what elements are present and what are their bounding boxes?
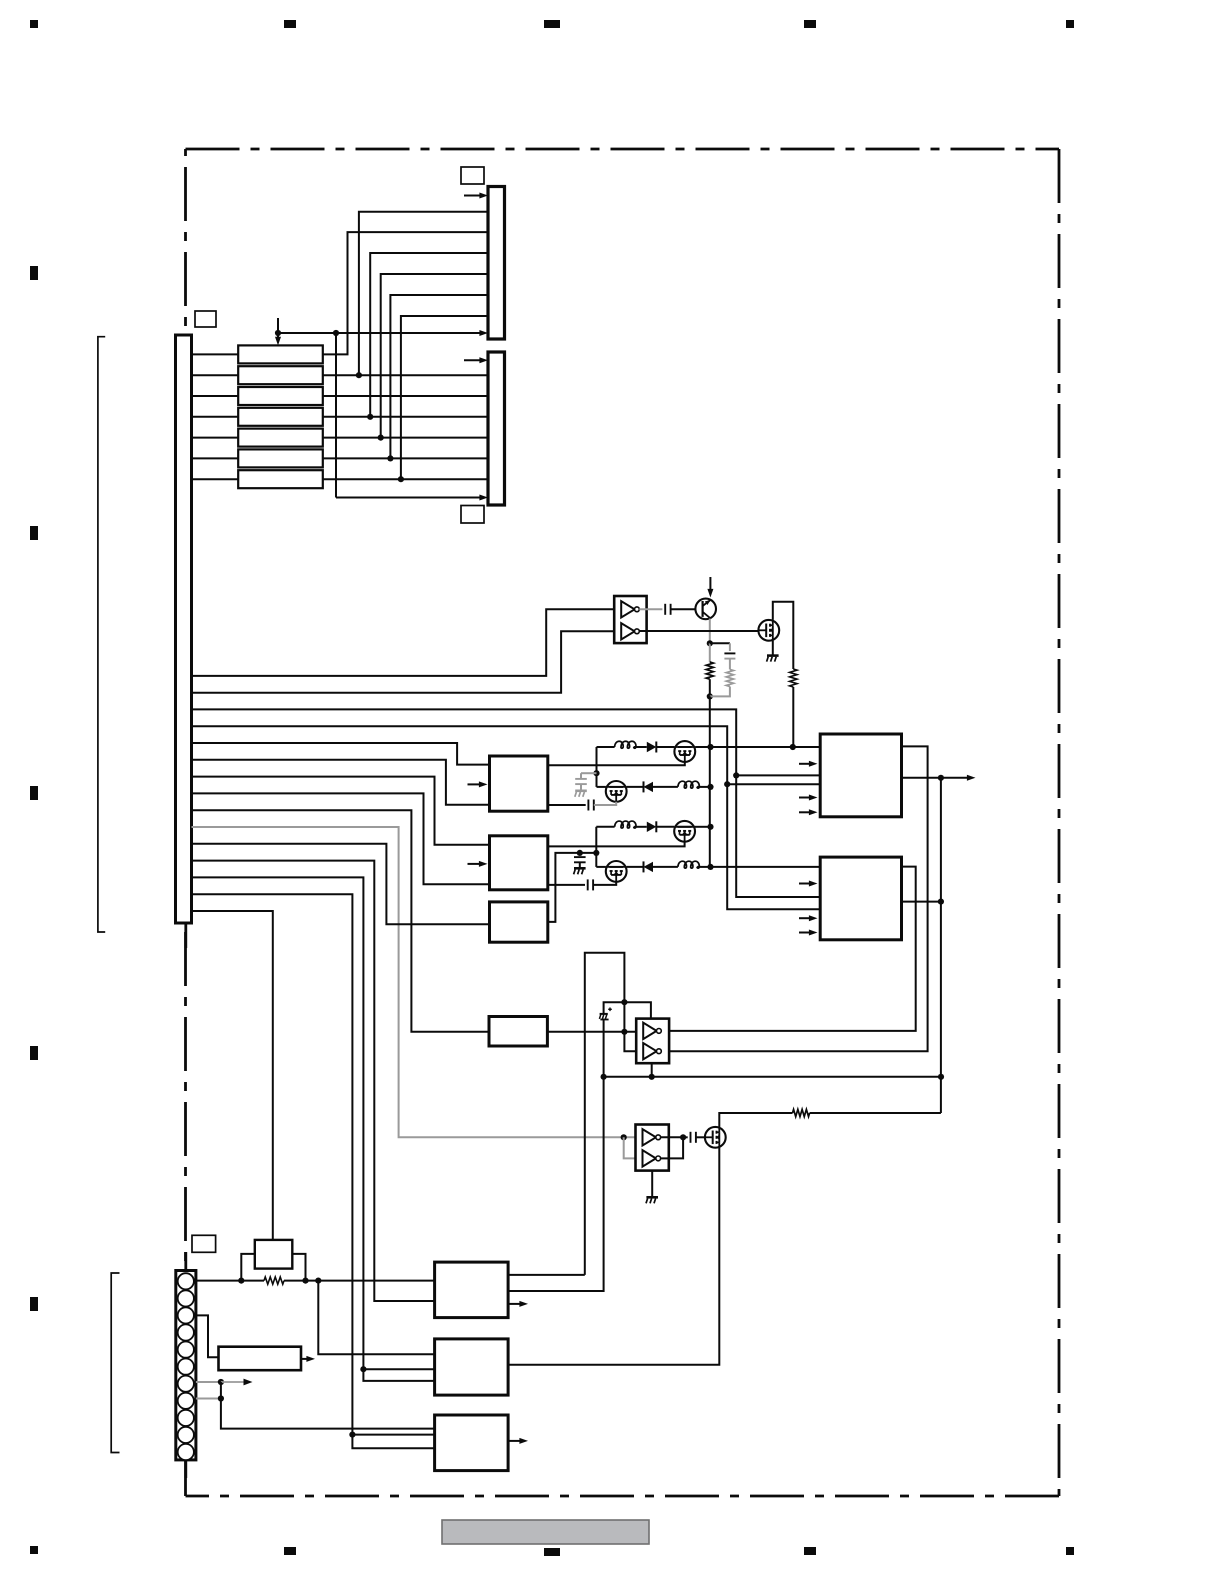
wire common rail y1077 xyxy=(604,1076,941,1078)
wire L1 to D1 xyxy=(634,746,647,748)
wire Q2 source to ground xyxy=(772,641,774,655)
registration mark top-right xyxy=(1066,20,1074,28)
diode D4 xyxy=(644,861,654,872)
junction U10 input xyxy=(621,1134,627,1140)
junction RA4 riser xyxy=(367,414,373,420)
inductor L4 xyxy=(678,861,699,868)
junction node C xyxy=(707,693,713,699)
junction riser C3 tap xyxy=(593,770,599,776)
arrow U13 output xyxy=(508,1438,528,1444)
resistor array RA6 xyxy=(238,449,323,467)
wire U1 p2 to inverter U8 in2 xyxy=(192,631,615,692)
board outline (dash-dot frame) xyxy=(186,149,1060,1496)
wire U10 out tie xyxy=(661,1137,684,1158)
junction p13 branch xyxy=(360,1366,366,1372)
registration mark left 5 xyxy=(30,1297,38,1311)
wire U1 pin to RA5 xyxy=(192,437,239,439)
wire RA7 to CN2 xyxy=(323,478,488,480)
supply stub into RA1 (down arrow) xyxy=(275,318,281,345)
wire U10 in2 branch (grey) xyxy=(624,1137,636,1158)
registration mark left 2 xyxy=(30,526,38,540)
wire Q5 to bus xyxy=(695,826,711,828)
arrow pin7 (grey line, black head) xyxy=(221,1379,253,1386)
wire U9 in2 branch xyxy=(624,1032,636,1051)
wire R1 to node C xyxy=(709,679,711,696)
wire RA5 to CN2 xyxy=(323,437,488,439)
registration mark bottom 4 xyxy=(804,1547,816,1555)
junction pin7 xyxy=(218,1379,224,1385)
junction row3 bus xyxy=(707,824,713,830)
wire riser to Q6 gate xyxy=(596,866,606,868)
wire RA1 to CN1 (riser) xyxy=(323,232,488,354)
junction Vrail/link xyxy=(621,999,627,1005)
junction U9 bottom xyxy=(649,1074,655,1080)
wire driver U2 outB to C4 xyxy=(548,804,586,806)
wire row1 to R3 node xyxy=(711,746,793,748)
wire p3 to U5 xyxy=(736,774,820,776)
resistor R1 xyxy=(706,662,713,679)
registration mark bottom center xyxy=(544,1548,560,1556)
wire U1 pin to RA7 xyxy=(192,478,239,480)
wire p13 branch to U12 xyxy=(363,1368,434,1370)
wire R2 to node C (grey) xyxy=(710,687,730,697)
wire U1 p6 to driver U2 xyxy=(192,760,490,805)
trim network box U14 xyxy=(219,1347,302,1371)
supply arrow into Q1 collector xyxy=(707,577,713,598)
junction RA7 riser xyxy=(398,476,404,482)
wire battery to node D xyxy=(603,1020,605,1077)
inverter pair U8 xyxy=(614,596,646,643)
junction node B xyxy=(333,330,339,336)
inverter pair U9 xyxy=(636,1019,669,1064)
wire CN3 pin7 (grey) xyxy=(196,1381,221,1383)
inductor L2 xyxy=(678,781,699,788)
mosfet Q4 xyxy=(606,781,627,802)
junction C5 tap xyxy=(577,850,583,856)
resistor R5 xyxy=(264,1277,284,1284)
arrow into U6 c xyxy=(799,930,818,936)
resistor R4 xyxy=(793,1109,810,1116)
arrow into U5 a xyxy=(799,761,818,767)
wire pin7/8 to U13 xyxy=(221,1399,435,1429)
wire U1 p15 to network box U15 xyxy=(192,911,273,1240)
wire U1 pin to RA3 xyxy=(192,395,239,397)
arrow into CN2 pin1 xyxy=(464,357,488,363)
wire U1 pin to RA6 xyxy=(192,457,239,459)
wire branch to U12 xyxy=(318,1281,434,1355)
wire p4 to U5 xyxy=(727,783,820,785)
mosfet Q2 xyxy=(758,620,779,641)
junction U9 input xyxy=(621,1029,627,1035)
reference label box A xyxy=(195,311,216,327)
ground GND4 xyxy=(646,1197,658,1203)
wire RA4 to CN2 xyxy=(323,416,488,418)
wire RA4 riser to CN1 xyxy=(370,253,488,417)
arrow into U6 b xyxy=(799,915,818,921)
capacitor C1 xyxy=(665,604,670,615)
wire Q4 to D2 xyxy=(627,786,644,788)
capacitor C3 (grey) xyxy=(575,773,587,784)
capacitor C6 xyxy=(588,879,593,890)
registration mark left 1 xyxy=(30,266,38,280)
wire pin1 net to U11 xyxy=(306,1280,435,1282)
driver U4 xyxy=(490,902,548,942)
wire node B to CN2 (arrow) xyxy=(336,333,488,501)
wire p14 branch to U13 xyxy=(352,1434,434,1436)
wire CN3 pin1 net xyxy=(196,1280,241,1282)
registration mark bottom-left xyxy=(30,1546,38,1554)
registration mark left 3 xyxy=(30,786,38,800)
mosfet Q7 xyxy=(705,1127,726,1148)
wire U7 out to U9 xyxy=(547,1031,636,1033)
junction row2 bus xyxy=(707,784,713,790)
wire U10 out1 xyxy=(661,1136,684,1138)
title block (grey label box) xyxy=(442,1520,649,1544)
transistor Q1 xyxy=(695,599,716,620)
wire C5 to GND3 xyxy=(579,862,581,867)
ground GND1 xyxy=(767,656,779,662)
wire feedback bus x941 xyxy=(940,778,942,1113)
ground GND3 xyxy=(574,868,586,874)
filter box U7 xyxy=(489,1017,547,1047)
wire U9 bottom stub xyxy=(651,1063,653,1077)
wire RA3 to CN2 xyxy=(323,395,488,397)
junction p3/driver xyxy=(733,772,739,778)
wire V+ rail xyxy=(604,1002,651,1018)
resistor array RA3 xyxy=(238,387,323,405)
junction pin8 xyxy=(218,1395,224,1401)
diode D3 xyxy=(647,821,657,832)
inductor L3 xyxy=(596,821,636,828)
wire R3 to row1 xyxy=(792,687,794,747)
wire p3 to U6 xyxy=(736,775,820,897)
wire Q1 emitter (grey) xyxy=(709,619,711,644)
wire RA5 riser to CN1 xyxy=(381,274,488,438)
registration mark bottom 2 xyxy=(284,1547,296,1555)
ground GND2 (grey) xyxy=(575,791,587,797)
wire RA6 riser to CN1 xyxy=(390,295,488,458)
wire RA2 riser to CN1 xyxy=(359,212,488,375)
diode D1 xyxy=(647,742,657,753)
wire driver U3 outB to C6 xyxy=(548,884,585,886)
output box U13 xyxy=(435,1415,509,1471)
wire U11 outA xyxy=(508,1274,585,1276)
output box U12 xyxy=(435,1339,509,1395)
reference label box D xyxy=(192,1235,216,1252)
resistor R2 (grey) xyxy=(726,669,733,686)
connector CN3 xyxy=(176,1271,196,1460)
wire L2 to bus row2 xyxy=(697,786,710,788)
junction row1/R3 xyxy=(790,744,796,750)
component box U15 (parallel network) xyxy=(241,1240,305,1281)
diode D2 xyxy=(644,781,654,792)
wire D2 to L2 xyxy=(653,786,678,788)
wire driver U2 outA xyxy=(548,762,685,765)
wire U1 p10 (grey) to inverter U10 xyxy=(192,827,636,1137)
wire tap to C3 (grey) xyxy=(581,772,597,774)
wire L4 to bus row4 xyxy=(697,866,710,868)
junction R5 left xyxy=(238,1278,244,1284)
arrow output right xyxy=(941,775,976,781)
inverter pair U10 xyxy=(636,1125,669,1171)
arrow into U3 xyxy=(468,861,488,867)
group bracket (connector section) xyxy=(111,1273,119,1453)
wire U1 p11 to driver U4 xyxy=(192,844,490,925)
junction row4 bus xyxy=(707,864,713,870)
wire RA6 to CN2 xyxy=(323,457,488,459)
mosfet Q5 xyxy=(674,821,695,842)
capacitor C2 xyxy=(724,653,735,658)
wire branch to C2 (grey) xyxy=(729,643,731,651)
IC U1 (main microcontroller bar) xyxy=(176,335,192,923)
wire frame stub above CN3 xyxy=(184,1252,187,1271)
label box C (CN2) xyxy=(461,506,484,524)
wire U1 pin to RA1 xyxy=(192,353,239,355)
arrow U14 output xyxy=(301,1356,315,1362)
wire R5 right xyxy=(284,1280,306,1282)
wire C7 to Q7 gate xyxy=(696,1136,705,1138)
wire U1 p4 bus xyxy=(192,726,728,784)
wire out to C7 xyxy=(683,1136,688,1138)
wire frame stub below U1 xyxy=(184,923,187,948)
wire row1 into U5 xyxy=(793,746,820,748)
wire U8 out2 to Q2 gate xyxy=(639,630,758,632)
junction RA6 riser xyxy=(387,455,393,461)
group bracket (IC section) xyxy=(98,337,105,932)
wire U1 p1 to inverter U8 in1 xyxy=(192,609,615,676)
wire Q2 drain to R3 xyxy=(773,602,794,669)
wire Q6 to D4 xyxy=(627,866,644,868)
wire RA7 riser to CN1 xyxy=(401,316,488,479)
wire riser to Q4 gate xyxy=(597,786,606,788)
battery V+ (supply symbol) xyxy=(599,1008,611,1020)
wire C4 to Q4 source (grey) xyxy=(594,802,616,805)
junction Q1 emitter node xyxy=(707,640,713,646)
registration mark top 2 xyxy=(284,20,296,28)
wire U10 ground stub xyxy=(651,1171,653,1197)
wire U1 p3 bus xyxy=(192,709,737,775)
mosfet Q6 xyxy=(606,861,627,882)
junction pin1/U12 branch xyxy=(315,1278,321,1284)
resistor array RA7 xyxy=(238,470,323,488)
resistor array RA5 xyxy=(238,429,323,447)
resistor array RA2 xyxy=(238,366,323,384)
wire U1 pin to RA4 xyxy=(192,416,239,418)
wire row3 riser xyxy=(595,827,597,867)
resistor array RA4 xyxy=(238,408,323,426)
wire L3 to D3 xyxy=(634,826,647,828)
junction U5 outB xyxy=(938,775,944,781)
junction RA2 riser xyxy=(356,372,362,378)
wire Q7 source to U12 xyxy=(508,1148,719,1365)
wire C3 to GND2 (grey) xyxy=(580,784,582,790)
wire U1 p7 to driver U3 xyxy=(192,777,490,845)
junction rail/feedback xyxy=(938,1074,944,1080)
wire frame stub below CN3 xyxy=(184,1460,187,1478)
connector CN2 xyxy=(488,352,505,505)
junction p14 branch xyxy=(349,1432,355,1438)
connector CN1 xyxy=(488,187,505,340)
output box U11 xyxy=(435,1262,509,1318)
arrow into CN1 pin1 xyxy=(464,193,488,199)
wire CN3 pin3 to trim box xyxy=(196,1315,219,1357)
junction node A xyxy=(275,330,281,336)
wire RA2 to CN2 xyxy=(323,374,488,376)
junction RA5 riser xyxy=(378,435,384,441)
wire U5 outB node xyxy=(902,777,941,779)
wire U5 outA to U9 xyxy=(664,746,928,1051)
bus emitter node C down xyxy=(709,696,711,867)
wire U6 outB node xyxy=(902,901,941,903)
wire to R5 xyxy=(241,1280,264,1282)
wire driver U3 outA xyxy=(548,842,685,847)
power module U6 xyxy=(820,857,901,940)
junction U6 outB xyxy=(938,899,944,905)
wire U1 p5 to driver U2 xyxy=(192,743,490,765)
wire U1 p13 to box U12 xyxy=(192,877,435,1381)
junction node D xyxy=(601,1074,607,1080)
driver U2 xyxy=(490,756,548,811)
capacitor C4 xyxy=(588,800,593,811)
wire U1 pin to RA2 xyxy=(192,374,239,376)
wire CN3 pin8 (grey) xyxy=(196,1398,221,1400)
junction riser row3/U4 xyxy=(593,850,599,856)
wire U1 p14 to box U13 xyxy=(192,894,435,1448)
wire node D to box5 xyxy=(507,1077,603,1291)
wire node to R1 (grey) xyxy=(709,643,711,662)
wire RC branch top xyxy=(710,642,730,644)
capacitor C7 xyxy=(691,1132,696,1143)
driver U3 xyxy=(490,836,548,890)
wire D3 to Q5 xyxy=(656,826,674,828)
wire Q7 drain to R4 xyxy=(719,1113,792,1127)
arrow into U6 a xyxy=(799,881,818,887)
wire U4 output riser xyxy=(548,853,597,922)
wire U8 out1 (grey) to C1 xyxy=(639,608,662,610)
arrow into U5 b xyxy=(799,795,818,801)
wire U1 p8 to driver U3 xyxy=(192,793,490,884)
power module U5 xyxy=(820,734,901,817)
wire U6 outA to U9 xyxy=(664,867,916,1031)
junction row1 bus xyxy=(707,744,713,750)
wire D1 to Q3 xyxy=(656,746,674,748)
capacitor C5 xyxy=(574,853,586,862)
mosfet Q3 xyxy=(674,741,695,762)
registration mark left 4 xyxy=(30,1046,38,1060)
wire C1 to Q1 base xyxy=(671,608,696,610)
connector CN3 pins xyxy=(178,1273,194,1460)
wire row4 into U6 xyxy=(711,866,821,868)
wire row1 riser xyxy=(596,747,598,787)
junction U10 out xyxy=(680,1134,686,1140)
wire R4 to feedback bus xyxy=(810,1112,941,1114)
wire p4 to U6 xyxy=(727,784,820,909)
resistor R3 xyxy=(790,669,797,687)
arrow into U5 c xyxy=(799,809,818,815)
wire box5 loop link xyxy=(585,953,625,1275)
resistor array RA1 xyxy=(238,345,323,363)
label box B (CN1) xyxy=(461,167,484,184)
arrow into U2 xyxy=(468,781,488,787)
wire D4 to L4 xyxy=(653,866,678,868)
wire C2 to R2 (grey) xyxy=(729,659,731,670)
registration mark bottom-right xyxy=(1066,1547,1074,1555)
wire node A to CN1 (arrow) xyxy=(278,330,488,336)
inductor L1 xyxy=(597,741,638,748)
wire C6 to Q6 source xyxy=(593,882,616,885)
registration mark top 4 xyxy=(804,20,816,28)
registration mark top-left xyxy=(30,20,38,28)
wire pins7-8 tie xyxy=(220,1382,222,1399)
wire U1 p9 to filter U7 xyxy=(192,810,490,1032)
wire U1 p12 to box U11 xyxy=(192,861,435,1301)
junction R5 right xyxy=(302,1278,308,1284)
junction p4/driver xyxy=(724,781,730,787)
wire Q3 to bus xyxy=(695,746,710,748)
arrow U11 output xyxy=(508,1301,528,1307)
registration mark top center xyxy=(544,20,560,28)
